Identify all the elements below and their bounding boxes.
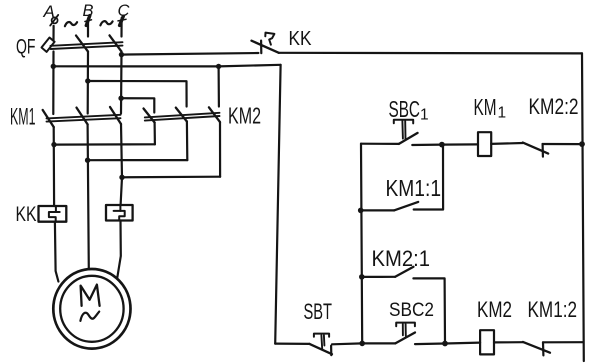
auxiliary contact KM1:2 label bbox=[528, 297, 578, 322]
phase label A bbox=[43, 2, 55, 21]
auxiliary contact KM1:1 NO blade bbox=[394, 202, 418, 211]
thermal relay KK heater element phase U bbox=[39, 206, 67, 222]
svg-text:SBT: SBT bbox=[304, 299, 333, 324]
motor AC tilde bbox=[80, 312, 99, 321]
circuit breaker QF handle bbox=[42, 38, 55, 52]
stop button SBT actuator bbox=[314, 334, 329, 349]
motor letter M bbox=[81, 285, 100, 306]
wire KM1 pole 3 output bbox=[121, 124, 122, 205]
wire KM1:1 to node A riser bbox=[414, 145, 443, 210]
svg-text:1: 1 bbox=[498, 104, 507, 121]
wire phase A from QF to KM1 pole 1 bbox=[52, 52, 54, 115]
start button SBC2 NO blade bbox=[395, 333, 415, 344]
contactor coil KM2 bbox=[480, 330, 494, 354]
svg-text:KM2: KM2 bbox=[228, 102, 261, 128]
wire KM2 pole 3 output drop bbox=[219, 122, 221, 177]
node: merge V bbox=[85, 158, 90, 163]
wire coil KM2 to KM1:2 bbox=[494, 341, 523, 343]
wire SBC2 to node B bbox=[415, 342, 445, 345]
svg-text:KM2:1: KM2:1 bbox=[372, 246, 431, 271]
svg-text:SBC: SBC bbox=[389, 96, 421, 122]
node: phase C tap at y98 bbox=[118, 96, 123, 101]
wire mid control rail bbox=[361, 144, 362, 344]
contactor coil KM1 label bbox=[474, 94, 507, 121]
start button SBC1 label bbox=[389, 96, 429, 124]
QF pole B blade bbox=[76, 36, 88, 52]
auxiliary contact KM2:1 label bbox=[372, 246, 431, 271]
KM2 pole 1 blade bbox=[144, 109, 155, 123]
wire node A to coil KM1 bbox=[442, 143, 478, 145]
KM2 pole 2 blade bbox=[176, 108, 187, 122]
node: KM2:1 left on mid rail bbox=[359, 274, 365, 280]
thermal relay contact KK label bbox=[289, 28, 313, 50]
KM1 pole 1 blade bbox=[43, 110, 54, 127]
wire KM2:2 to right rail bbox=[543, 143, 582, 145]
svg-text:SBC2: SBC2 bbox=[389, 299, 434, 321]
wire node to SBC2 bbox=[362, 342, 395, 344]
node: merge W bbox=[119, 175, 124, 180]
wire coil KM1 to KM2:2 bbox=[491, 142, 523, 145]
thermal relay KK heater element phase W bbox=[106, 205, 133, 221]
contactor KM1 label bbox=[10, 103, 36, 130]
wire KM2:1 to node B dropper bbox=[413, 278, 445, 343]
auxiliary contact KM2:2 fixed tick bbox=[541, 144, 544, 157]
wire mid rail to KM2:1 bbox=[362, 276, 395, 278]
contactor KM2 linkage bar bbox=[145, 113, 220, 121]
wire W heater to motor bbox=[117, 221, 121, 278]
svg-text:QF: QF bbox=[16, 36, 36, 59]
node B: SBC2 / KM2:1 / coil KM2 bbox=[442, 341, 448, 347]
circuit breaker QF label bbox=[16, 36, 36, 59]
node: phase C tap to control line KK bbox=[119, 52, 124, 57]
wire merge line phase U bbox=[54, 143, 155, 146]
start button SBC2 label bbox=[389, 299, 434, 321]
start button SBC2 actuator bbox=[396, 323, 415, 336]
svg-text:KK: KK bbox=[289, 28, 313, 50]
auxiliary contact KM2:1 NO blade bbox=[395, 267, 413, 277]
svg-text:KM2:2: KM2:2 bbox=[529, 94, 579, 119]
wire right control rail bbox=[582, 53, 584, 361]
contactor coil KM1 bbox=[478, 132, 491, 156]
start button SBC1 NO blade bbox=[399, 133, 418, 144]
node: KM1:1 left on mid rail bbox=[358, 208, 364, 214]
start button SBC1 actuator bbox=[394, 120, 413, 140]
wire phase C feed to KM2 pole 1 bbox=[121, 98, 154, 112]
wire phase B feed to KM2 pole 2 bbox=[88, 81, 187, 107]
node: mid rail bottom junction bbox=[359, 341, 365, 347]
auxiliary contact KM2:2 NC blade bbox=[523, 143, 548, 154]
node A: SBC1 / KM1:1 / coil KM1 bbox=[439, 142, 445, 148]
wire phase A into QF bbox=[52, 26, 54, 40]
svg-text:KM1:2: KM1:2 bbox=[528, 297, 578, 322]
wire bottom line to SBT bbox=[275, 343, 309, 345]
QF pole C blade bbox=[110, 35, 122, 51]
wire phase A feed to KM2 pole 3 and control rail bbox=[53, 65, 280, 67]
wire KM1:2 to right rail bbox=[543, 341, 583, 343]
wire KM2 pole 1 output drop bbox=[154, 123, 156, 145]
contactor KM2 label bbox=[228, 102, 261, 128]
node: junction feed KM2 pole 3 bbox=[216, 64, 221, 69]
stop button SBT NC blade bbox=[310, 344, 333, 354]
KM2 pole 3 blade bbox=[209, 107, 220, 122]
wire down feed KM2 pole 3 bbox=[218, 66, 220, 106]
motor M1 inner circle bbox=[60, 276, 123, 342]
wire phase B from QF to KM1 pole 2 bbox=[87, 52, 90, 114]
node: phase B tap at y81 bbox=[85, 78, 90, 83]
wire KK contact to right rail bbox=[279, 52, 582, 55]
wire SBC1 to node A bbox=[412, 144, 442, 147]
wire merge line phase V bbox=[88, 159, 188, 161]
incoming supply arrow on phase B bbox=[85, 16, 92, 26]
node: merge U bbox=[51, 142, 56, 147]
wire mid rail to SBC1 bbox=[361, 143, 399, 145]
svg-text:KK: KK bbox=[16, 203, 37, 226]
wire merge line phase W bbox=[122, 176, 220, 179]
wire KM1 pole 2 output bbox=[88, 124, 89, 269]
contactor KM1 linkage bar bbox=[47, 115, 121, 122]
wire U heater to motor bbox=[55, 222, 59, 282]
node: phase A tap at y66 bbox=[51, 64, 56, 69]
svg-text:KM1: KM1 bbox=[10, 103, 36, 130]
thermal relay contact KK fixed tick bbox=[260, 41, 262, 54]
wire phase C from QF to KM1 pole 3 bbox=[120, 52, 123, 114]
AC tilde between B and C bbox=[100, 21, 112, 25]
thermal relay contact KK function hook bbox=[265, 33, 274, 45]
incoming supply arrow on phase A bbox=[50, 15, 58, 26]
wire mid rail to KM1:1 bbox=[361, 209, 394, 211]
svg-text:KM: KM bbox=[474, 94, 497, 120]
KM1 pole 2 blade bbox=[77, 108, 88, 125]
thermal relay contact KK blade bbox=[252, 41, 279, 53]
phase label C bbox=[118, 2, 130, 20]
circuit breaker QF linkage bar bbox=[51, 42, 123, 49]
auxiliary contact KM2:2 label bbox=[529, 94, 579, 119]
wire control line from phase C to KK contact bbox=[122, 53, 259, 55]
AC tilde between A and B bbox=[65, 22, 77, 26]
auxiliary contact KM1:2 fixed tick bbox=[542, 342, 545, 355]
motor M1 outer circle bbox=[53, 269, 130, 349]
wire KM1 pole 1 output bbox=[53, 127, 56, 206]
KM1 pole 3 blade bbox=[110, 107, 121, 124]
auxiliary contact KM1:1 label bbox=[386, 175, 442, 201]
svg-text:KM2: KM2 bbox=[477, 297, 512, 322]
incoming supply arrow on phase C bbox=[118, 16, 126, 25]
wire phase C into QF bbox=[120, 18, 122, 37]
wire node B to coil KM2 bbox=[445, 342, 480, 345]
contactor coil KM2 label bbox=[477, 297, 512, 322]
phase label B bbox=[83, 2, 94, 20]
svg-text:1: 1 bbox=[420, 106, 429, 123]
stop button SBT fixed tick bbox=[330, 346, 332, 356]
wire SBT to mid rail node bbox=[332, 342, 362, 345]
wire left control rail bbox=[275, 65, 280, 344]
wire KM2 pole 2 output drop bbox=[186, 122, 189, 161]
wire phase B into QF bbox=[87, 19, 89, 37]
thermal relay KK label bbox=[16, 203, 37, 226]
svg-text:KM1:1: KM1:1 bbox=[386, 175, 442, 201]
auxiliary contact KM1:2 NC blade bbox=[523, 342, 550, 353]
node: right rail at KM1 branch bbox=[579, 141, 585, 147]
stop button SBT label bbox=[304, 299, 333, 324]
